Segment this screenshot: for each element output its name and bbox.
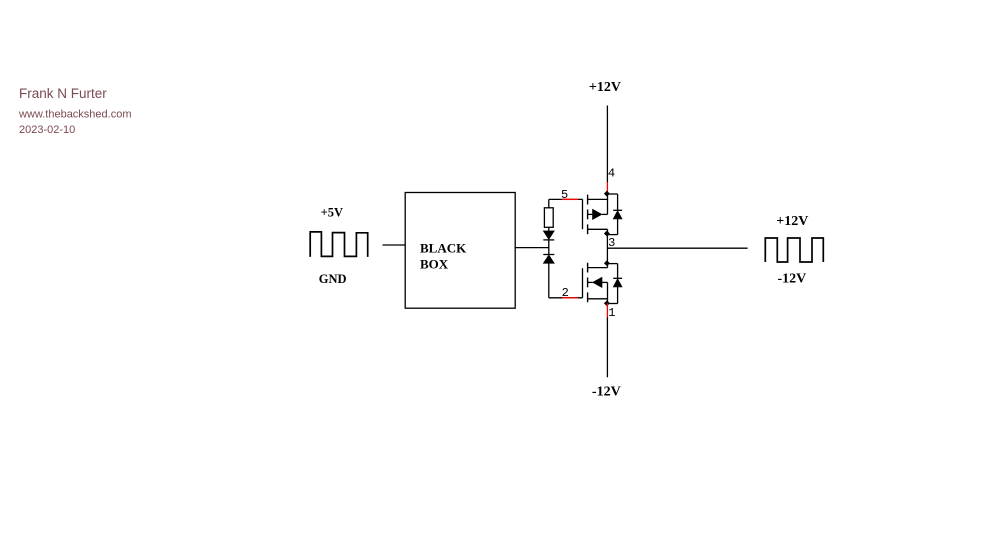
svg-text:Frank N Furter: Frank N Furter <box>19 86 107 101</box>
junction node 3 upper <box>604 231 610 237</box>
svg-text:2023-02-10: 2023-02-10 <box>19 124 75 136</box>
Q2 arrow <box>588 281 593 283</box>
-12V supply wire <box>606 318 608 378</box>
junction node 4 <box>604 191 610 197</box>
svg-text:1: 1 <box>608 306 615 320</box>
Q2 channel segments <box>587 263 589 273</box>
Q1 body diode DB1 <box>617 194 619 210</box>
Q1 drain stub bottom <box>588 228 608 230</box>
transistor Q1 PMOS gate plate <box>582 199 584 229</box>
svg-text:-12V: -12V <box>778 272 807 287</box>
svg-text:BOX: BOX <box>420 257 449 272</box>
Q2 source stub <box>588 298 608 300</box>
Q1 body diode bottom wire <box>607 234 618 236</box>
Q1 arrow <box>588 213 593 215</box>
svg-text:4: 4 <box>608 166 615 180</box>
svg-text:+12V: +12V <box>589 80 621 95</box>
output square wave <box>765 238 823 262</box>
wire input to black box <box>383 244 406 246</box>
svg-text:www.thebackshed.com: www.thebackshed.com <box>18 109 132 121</box>
wire resistor to diode D1 <box>548 227 550 231</box>
output wire <box>607 247 747 249</box>
svg-text:BLACK: BLACK <box>420 240 467 255</box>
diode D2 <box>543 254 554 256</box>
node 2 wire <box>549 297 583 299</box>
Q2 body diode DB2 <box>617 264 619 279</box>
resistor R1 <box>544 208 553 228</box>
+12V supply wire <box>606 106 608 183</box>
diode D1 <box>543 231 554 240</box>
Q1 source stub top <box>588 198 609 200</box>
Q2 drain stub <box>588 267 608 269</box>
wire black box to diode node <box>515 247 549 249</box>
svg-text:-12V: -12V <box>592 385 621 400</box>
black box U1 <box>405 193 515 309</box>
wire D2 to node 2 <box>548 263 550 298</box>
input square wave <box>310 232 368 257</box>
svg-text:+5V: +5V <box>321 206 343 220</box>
junction node 1 <box>604 300 610 306</box>
Q1 channel segments <box>587 195 589 205</box>
junction bottom FET drain <box>604 260 610 266</box>
svg-text:2: 2 <box>562 286 569 300</box>
node 1 wire red <box>606 303 608 317</box>
node 5 wire <box>549 198 583 200</box>
Q1 body diode top wire <box>607 193 618 195</box>
svg-text:5: 5 <box>561 188 568 202</box>
wire node5 to resistor <box>548 199 550 207</box>
svg-text:+12V: +12V <box>776 214 808 229</box>
transistor Q2 NMOS drain top wire <box>607 263 618 265</box>
Q1 right vertical junction to arrow <box>607 194 609 215</box>
node 3 vertical wire <box>606 234 608 264</box>
svg-text:GND: GND <box>319 272 347 286</box>
Q2 gate plate <box>582 268 584 298</box>
wire D1 to D2 through input node <box>548 240 550 255</box>
